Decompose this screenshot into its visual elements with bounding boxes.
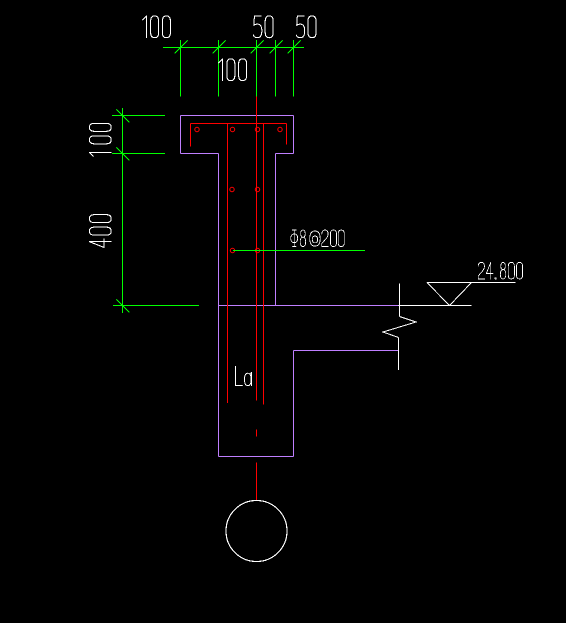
left dimension line	[122, 108, 124, 313]
rebar section circles in stem (lower pair)	[230, 248, 234, 252]
dim label 100 (below dim line)	[219, 59, 247, 81]
centerline lower segment	[256, 463, 258, 501]
dim label 100 (left, rotated)	[89, 123, 111, 156]
leader line for stirrup spacing	[233, 250, 365, 252]
left dimension ticks	[117, 110, 130, 313]
top dimension ticks	[175, 41, 301, 54]
top extension lines	[181, 40, 294, 97]
stirrup right hook	[286, 124, 288, 145]
T-section outline: upper stem right edge	[275, 154, 277, 306]
rebar left vertical bar	[227, 124, 229, 404]
T-section outline: stem left edge	[218, 154, 220, 457]
anchorage label La	[235, 367, 251, 386]
annotation Phi8@200	[291, 230, 345, 247]
T-section outline: flange bottom right	[276, 153, 294, 155]
stirrup top bar (red)	[191, 123, 287, 125]
dim label 400 (left, rotated)	[89, 215, 111, 248]
break line (zigzag) at slab cut	[399, 284, 401, 317]
T-section outline: flange right edge	[293, 116, 295, 154]
T-section outline: flange bottom left	[181, 153, 219, 155]
elevation marker horizontal line	[427, 282, 516, 284]
centerline upper segment (red)	[256, 97, 258, 401]
rebar section circles in stem (upper pair)	[230, 187, 234, 191]
dim label 50 (first)	[253, 16, 273, 38]
elevation marker triangle	[427, 283, 472, 306]
elevation label 24.800	[478, 262, 522, 279]
top dimension line	[163, 47, 304, 49]
T-section outline: flange top edge	[181, 115, 294, 117]
elevation marker base line	[399, 305, 472, 307]
T-section outline: lower stem right edge	[293, 351, 295, 457]
centerline dash	[256, 430, 258, 437]
slab bottom surface line	[294, 350, 399, 352]
T-section outline: bottom edge	[219, 456, 294, 458]
T-section outline: flange left edge	[180, 116, 182, 154]
left extension lines	[112, 116, 199, 306]
rebar right vertical bar	[263, 124, 265, 405]
dim label 50 (second)	[296, 16, 316, 38]
section bubble circle	[226, 501, 287, 562]
dim label 100 (top far left)	[143, 16, 171, 38]
stirrup left hook	[190, 124, 192, 147]
slab top surface line	[219, 305, 400, 307]
rebar section circles in flange	[195, 127, 199, 131]
